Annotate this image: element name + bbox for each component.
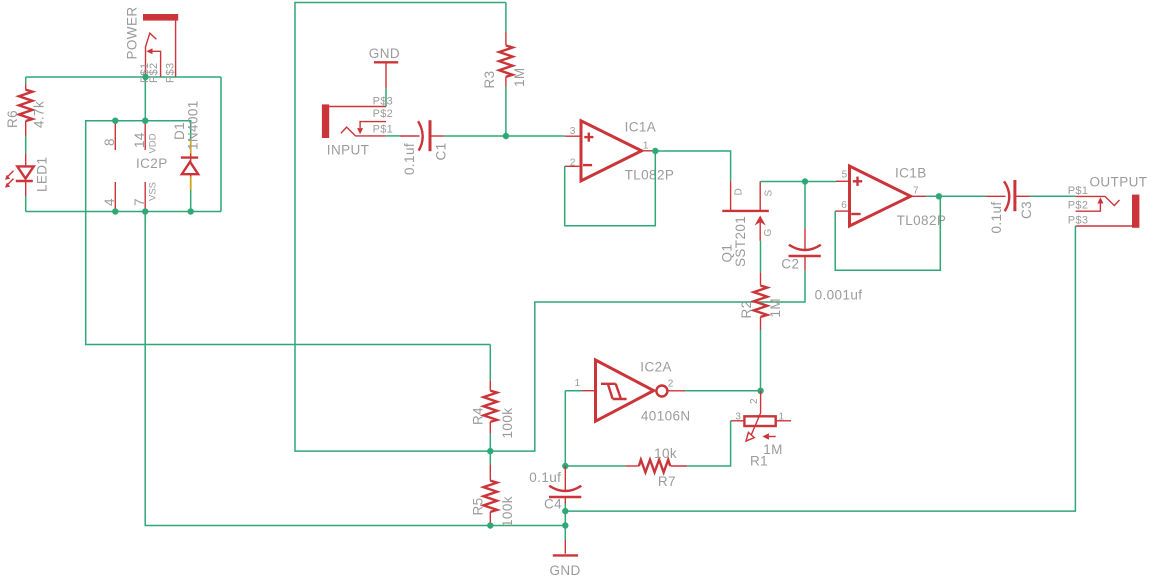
svg-text:P$2: P$2 (148, 63, 160, 83)
label 100k R4 (500, 408, 515, 439)
svg-text:4.7k: 4.7k (31, 101, 46, 128)
pin 5 (842, 170, 848, 181)
resistor R7 (625, 460, 687, 473)
pin P$2 output (1068, 200, 1088, 212)
node R5 bottom junction (487, 522, 493, 528)
resistor R3 (499, 32, 513, 87)
wire (25, 77, 27, 84)
label IC1A (625, 120, 657, 135)
label SST201 (733, 216, 748, 267)
svg-text:1: 1 (779, 412, 785, 423)
label D1 (172, 122, 187, 140)
label R3 (482, 70, 497, 88)
pin D (734, 188, 745, 195)
pin 2 (570, 157, 576, 168)
pin 3 (570, 126, 576, 137)
wire (564, 391, 566, 466)
svg-text:C4: C4 (544, 497, 562, 512)
label LED1 (35, 157, 50, 192)
svg-text:LED1: LED1 (35, 157, 50, 192)
svg-text:TL082P: TL082P (625, 168, 675, 183)
svg-text:IC1B: IC1B (895, 166, 927, 181)
svg-text:P$3: P$3 (1068, 215, 1088, 227)
pin 8 (102, 121, 117, 150)
label C2 (781, 257, 799, 272)
pin 4 (102, 182, 117, 212)
svg-text:R5: R5 (470, 497, 485, 515)
LED LED1 (5, 153, 34, 196)
pin 14 VDD (132, 121, 159, 154)
wire IC1A feedback (565, 151, 656, 226)
svg-text:0.001uf: 0.001uf (815, 288, 863, 303)
capacitor C2 (789, 228, 821, 270)
svg-text:14: 14 (132, 132, 147, 148)
label 10k (654, 446, 677, 461)
wire (385, 88, 387, 107)
label POWER (125, 6, 140, 59)
wire (1030, 195, 1076, 197)
connector OUTPUT (1076, 195, 1140, 228)
node R3 junction (503, 133, 509, 139)
svg-text:7: 7 (132, 198, 147, 206)
label 0.1uf C3 (989, 201, 1004, 233)
svg-text:D: D (734, 188, 745, 195)
label R5 (470, 497, 485, 515)
svg-text:IC1A: IC1A (625, 120, 657, 135)
wire (565, 465, 625, 467)
label C3 (1019, 201, 1034, 219)
svg-text:OUTPUT: OUTPUT (1090, 175, 1148, 190)
wire (445, 135, 565, 137)
pin 6 (841, 200, 847, 211)
label 1M R2 (768, 298, 783, 318)
label 1M (512, 67, 527, 87)
wire (489, 345, 491, 381)
svg-text:0.1uf: 0.1uf (402, 143, 417, 175)
svg-text:2: 2 (749, 398, 760, 404)
svg-text:G: G (763, 229, 774, 237)
label 40106N (641, 409, 691, 424)
op-amp IC1A (565, 121, 656, 181)
resistor R5 (483, 464, 497, 523)
wire (804, 182, 806, 229)
svg-text:GND: GND (550, 563, 581, 576)
potentiometer R1 (731, 391, 791, 441)
wire (26, 211, 221, 213)
wire (144, 77, 146, 121)
label 0.1uf C1 (402, 143, 417, 175)
wire (489, 433, 491, 464)
wire (926, 195, 986, 197)
svg-text:1M: 1M (768, 298, 783, 318)
label R4 (470, 407, 485, 425)
resistor R4 (483, 380, 497, 433)
wire (565, 390, 582, 392)
pin P$1 (373, 124, 393, 136)
pin P$3 (164, 63, 176, 83)
wire (25, 136, 27, 153)
label Q1 (719, 244, 734, 263)
node IC1B output junction (936, 193, 942, 199)
connector POWER (143, 14, 178, 77)
wire (564, 504, 566, 541)
label R6 (5, 110, 20, 128)
svg-text:P$1: P$1 (1068, 185, 1088, 197)
node R2 bottom junction (757, 388, 763, 394)
svg-text:P$3: P$3 (373, 96, 393, 108)
svg-text:VDD: VDD (148, 133, 159, 153)
svg-text:R3: R3 (482, 70, 497, 88)
pin P$2 (148, 63, 160, 83)
svg-text:3: 3 (735, 412, 741, 423)
node S junction (802, 178, 808, 184)
label R7 (658, 474, 676, 489)
label 1M R1 (763, 442, 783, 457)
svg-text:2: 2 (668, 379, 674, 390)
wire R1 pin3 down (687, 421, 731, 466)
capacitor C1 (400, 120, 445, 151)
node bottom rail junctions (112, 208, 194, 214)
svg-text:P$2: P$2 (1068, 200, 1088, 212)
pin 3 R1 (735, 412, 741, 423)
wire (655, 151, 730, 181)
svg-text:1N4001: 1N4001 (186, 100, 201, 150)
node box top junctions (112, 118, 148, 124)
svg-text:3: 3 (570, 126, 576, 137)
label 100k R5 (500, 496, 515, 527)
op-amp IC2A (582, 360, 685, 421)
label OUTPUT (1090, 175, 1148, 190)
capacitor C4 (549, 466, 581, 504)
op-amp IC1B (835, 166, 926, 226)
svg-text:100k: 100k (500, 408, 515, 439)
svg-text:40106N: 40106N (641, 409, 691, 424)
svg-text:8: 8 (102, 138, 117, 146)
wire (25, 196, 27, 212)
svg-text:100k: 100k (500, 496, 515, 527)
node R4 bottom junction (487, 448, 493, 454)
svg-text:0.1uf: 0.1uf (989, 201, 1004, 233)
svg-text:TL082P: TL082P (897, 213, 947, 228)
svg-text:P$1: P$1 (373, 124, 393, 136)
pin P$3 output (1068, 215, 1088, 227)
svg-text:IC2A: IC2A (640, 360, 672, 375)
svg-text:R2: R2 (739, 300, 754, 318)
svg-text:R4: R4 (470, 407, 485, 425)
pin P$2 (373, 108, 393, 120)
label C1 (433, 142, 448, 160)
label 0.1uf C4 (529, 470, 561, 485)
svg-text:S: S (763, 190, 774, 197)
transistor Q1 (722, 181, 769, 241)
label TL082P IC1B (897, 213, 947, 228)
svg-text:INPUT: INPUT (327, 143, 370, 158)
svg-text:4: 4 (102, 198, 117, 206)
svg-text:6: 6 (841, 200, 847, 211)
label R2 (739, 300, 754, 318)
IC IC2P box (86, 121, 191, 212)
resistor R6 (19, 84, 33, 137)
pin 2 IC2A (668, 379, 674, 390)
svg-text:C3: C3 (1019, 201, 1034, 219)
label IC2A (640, 360, 672, 375)
wire IC1B feedback (835, 196, 940, 270)
wire VSS drop to ground rail (145, 212, 565, 526)
svg-text:1: 1 (575, 378, 581, 389)
pin 1 (643, 140, 649, 151)
svg-text:R1: R1 (750, 454, 768, 469)
svg-text:10k: 10k (654, 446, 677, 461)
resistor R2 (754, 272, 768, 330)
pin 1 R1 (779, 412, 785, 423)
svg-text:7: 7 (913, 186, 919, 197)
connector INPUT (322, 104, 386, 138)
label 0.001uf (815, 288, 863, 303)
wire input net box (295, 3, 805, 452)
wire (505, 3, 507, 32)
pin 7 (913, 186, 919, 197)
diode D1 (181, 140, 198, 190)
wire (386, 135, 401, 137)
pin G (763, 229, 774, 237)
svg-text:SST201: SST201 (733, 216, 748, 267)
wire (760, 330, 762, 391)
capacitor C3 (986, 180, 1030, 211)
svg-text:0.1uf: 0.1uf (529, 470, 561, 485)
wire output return (565, 226, 1075, 511)
wire (26, 76, 221, 78)
ground GND bottom (550, 540, 581, 576)
node P$1 junction (142, 74, 148, 80)
label R1 (750, 454, 768, 469)
pin P$3 (373, 96, 393, 108)
svg-text:R7: R7 (658, 474, 676, 489)
svg-text:1: 1 (643, 140, 649, 151)
wire (760, 241, 762, 272)
ground GND top (369, 46, 400, 88)
pin 1 IC2A (575, 378, 581, 389)
svg-text:VSS: VSS (148, 182, 159, 201)
svg-text:GND: GND (369, 46, 400, 61)
label IC2P (136, 156, 168, 171)
node C4 top junction (562, 463, 568, 469)
label C4 (544, 497, 562, 512)
wire S node (760, 181, 836, 183)
pin 2 R1 (749, 398, 760, 404)
node C4 bottom junction (562, 508, 568, 514)
wire VDD2 bias left drop (86, 212, 491, 345)
node ground rail junction (562, 522, 568, 528)
svg-text:POWER: POWER (125, 6, 140, 59)
wire (220, 77, 222, 212)
pin P$1 (139, 63, 151, 83)
svg-text:1M: 1M (512, 67, 527, 87)
svg-text:5: 5 (842, 170, 848, 181)
pin P$1 output (1068, 185, 1088, 197)
svg-text:C2: C2 (781, 257, 799, 272)
wire (505, 87, 507, 137)
svg-text:C1: C1 (433, 142, 448, 160)
svg-text:R6: R6 (5, 110, 20, 128)
svg-text:P$2: P$2 (373, 108, 393, 120)
label INPUT (327, 143, 370, 158)
pin S (763, 190, 774, 197)
svg-text:2: 2 (570, 157, 576, 168)
label TL082P (625, 168, 675, 183)
pin 7 VSS (132, 182, 159, 212)
wire (685, 390, 760, 392)
node IC1A output junction (652, 148, 658, 154)
label IC1B (895, 166, 927, 181)
wire (489, 523, 491, 525)
svg-text:IC2P: IC2P (136, 156, 168, 171)
label 4.7k (31, 101, 46, 128)
svg-text:P$3: P$3 (164, 63, 176, 83)
label 1N4001 (186, 100, 201, 150)
